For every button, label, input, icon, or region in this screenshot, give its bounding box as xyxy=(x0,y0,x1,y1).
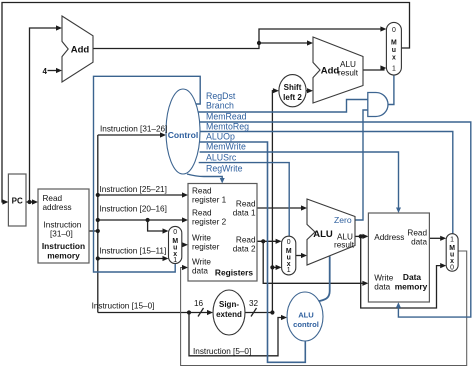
svg-text:control: control xyxy=(293,320,319,329)
svg-text:Read: Read xyxy=(236,236,256,245)
node ALU result junction xyxy=(359,234,363,238)
svg-text:Read: Read xyxy=(407,229,427,238)
svg-text:ALUSrc: ALUSrc xyxy=(206,153,237,163)
svg-text:data: data xyxy=(374,283,390,292)
wire Instruction [20-16] branch to write-register mux input 0 xyxy=(148,220,166,231)
node 15-0 junction xyxy=(187,310,191,314)
svg-text:register 2: register 2 xyxy=(192,218,227,227)
svg-text:memory: memory xyxy=(395,282,428,292)
svg-text:data: data xyxy=(411,238,427,247)
svg-text:Address: Address xyxy=(374,233,404,242)
wire Branch control to AND gate input 1 xyxy=(198,100,368,113)
svg-text:register 1: register 1 xyxy=(192,196,227,205)
svg-text:Sign-: Sign- xyxy=(219,300,239,309)
wire constant 4 into Add input 2 xyxy=(48,70,60,72)
svg-text:Read: Read xyxy=(236,200,256,209)
svg-text:Write: Write xyxy=(192,258,211,267)
svg-text:ALU: ALU xyxy=(313,229,333,240)
wire PC up to Add input 1 xyxy=(30,28,60,202)
adder Add (PC+4) xyxy=(62,16,93,82)
svg-text:4: 4 xyxy=(43,67,48,76)
svg-text:Add: Add xyxy=(71,45,90,56)
svg-text:Instruction [15–0]: Instruction [15–0] xyxy=(92,302,155,311)
svg-text:u: u xyxy=(392,47,396,54)
wire shift left 2 output to second Add input 2 xyxy=(306,90,311,92)
svg-text:ALUOp: ALUOp xyxy=(206,132,235,142)
svg-text:1: 1 xyxy=(392,66,396,73)
wire right mux output wrap-around bottom to Registers Write data xyxy=(181,251,467,366)
wire Zero flag to AND gate input 2 xyxy=(355,110,368,220)
svg-text:memory: memory xyxy=(47,251,80,261)
wire riser branch to ALUSrc mux input 1 xyxy=(272,266,279,268)
node riser junction xyxy=(270,265,274,269)
svg-text:address: address xyxy=(43,203,72,212)
svg-text:data 1: data 1 xyxy=(233,209,256,218)
svg-text:ALU: ALU xyxy=(298,311,314,320)
wire ALU result bypass under data memory to right mux input 0 xyxy=(361,236,444,308)
wire instruction bus vertical xyxy=(97,135,99,313)
wire data memory Read data to right mux input 1 xyxy=(429,237,443,239)
svg-text:left 2: left 2 xyxy=(283,93,302,102)
wire Read data 1 to ALU input 1 xyxy=(257,207,305,209)
node bus junction 20-16 xyxy=(96,218,100,222)
svg-text:RegDst: RegDst xyxy=(206,91,236,101)
svg-text:0: 0 xyxy=(287,239,291,246)
svg-text:RegWrite: RegWrite xyxy=(206,164,243,174)
svg-text:Instruction: Instruction xyxy=(44,221,82,230)
svg-text:32: 32 xyxy=(249,299,259,308)
wire write-register mux output to Write register xyxy=(182,244,186,246)
svg-text:16: 16 xyxy=(194,299,204,308)
AND gate (branch) xyxy=(368,93,388,117)
ALU main xyxy=(307,199,355,265)
mux top (PC source) xyxy=(386,22,401,75)
svg-text:Shift: Shift xyxy=(284,83,302,92)
svg-text:1: 1 xyxy=(287,267,291,274)
mux write register (RegDst) xyxy=(169,226,182,263)
wire Instruction [15-0] to sign-extend xyxy=(98,312,211,314)
wire Instruction [25-21] to Read register 1 xyxy=(98,194,186,196)
wire PC output to instruction memory read address xyxy=(26,201,36,203)
svg-text:PC: PC xyxy=(12,197,23,206)
data memory xyxy=(368,213,429,302)
node PC output junction xyxy=(27,200,31,204)
wire Read data 2 to ALUSrc mux input 0 xyxy=(257,240,279,242)
wire RegWrite control to Registers write enable xyxy=(187,174,222,181)
wire Add output (PC+4) to top mux input 0 xyxy=(93,29,384,49)
wire ALUOp control to ALU control xyxy=(200,142,306,362)
svg-text:Write: Write xyxy=(192,234,211,243)
wire Read data 2 branch to data memory write data xyxy=(263,241,366,283)
registers file xyxy=(188,184,257,282)
svg-text:1: 1 xyxy=(173,257,177,264)
node instruction memory output junction xyxy=(96,229,100,233)
svg-text:M: M xyxy=(391,40,397,47)
wire PC feedback from top mux output around top-left to PC input xyxy=(2,3,410,203)
svg-text:Instruction: Instruction xyxy=(42,241,85,251)
node sign-extend output corner xyxy=(270,310,274,314)
svg-text:register: register xyxy=(192,243,220,252)
wire ALU result to data memory Address xyxy=(355,235,366,237)
wire branch to second Add input 1 xyxy=(259,42,311,44)
svg-text:0: 0 xyxy=(392,27,396,34)
svg-text:MemWrite: MemWrite xyxy=(206,142,246,152)
svg-text:MemtoReg: MemtoReg xyxy=(206,122,249,132)
node 20-16 branch junction xyxy=(146,218,150,222)
svg-text:Instruction [31–26]: Instruction [31–26] xyxy=(100,125,167,134)
wire Instruction [20-16] to Read register 2 xyxy=(98,219,186,221)
svg-text:0: 0 xyxy=(173,229,177,236)
svg-text:0: 0 xyxy=(450,264,454,271)
register PC xyxy=(8,174,26,226)
svg-text:Read: Read xyxy=(43,194,63,203)
wire Instruction [5-0] to ALU control xyxy=(189,313,285,356)
wire MemRead control to data memory read port xyxy=(200,122,471,317)
svg-text:Branch: Branch xyxy=(206,101,234,111)
svg-text:MemRead: MemRead xyxy=(206,112,247,122)
svg-text:Read: Read xyxy=(192,209,212,218)
wire ALUSrc mux output to ALU input 2 xyxy=(296,255,305,257)
svg-text:x: x xyxy=(392,55,396,62)
node bus junction 15-11 xyxy=(96,256,100,260)
svg-text:Write: Write xyxy=(374,274,393,283)
svg-text:Instruction [5–0]: Instruction [5–0] xyxy=(193,347,251,356)
svg-text:1: 1 xyxy=(450,237,454,244)
wire MemtoReg control to right mux select xyxy=(200,132,453,234)
oval ALU control xyxy=(287,292,323,341)
svg-text:Zero: Zero xyxy=(334,215,352,225)
wire second Add output to top mux input 1 xyxy=(363,68,384,70)
svg-text:Control: Control xyxy=(168,130,199,140)
wire instruction memory output to instruction bus xyxy=(89,230,98,232)
node Read data 2 junction xyxy=(261,239,265,243)
wire Instruction [31-26] to Control xyxy=(98,134,164,136)
oval Sign-extend xyxy=(213,290,245,335)
node bus junction 25-21 xyxy=(96,193,100,197)
instruction memory xyxy=(38,189,89,263)
wire MemWrite control to data memory write port xyxy=(200,152,399,211)
svg-text:data 2: data 2 xyxy=(233,245,256,254)
wire sign-extend output riser to shift left 2 xyxy=(245,91,276,313)
oval Shift left 2 xyxy=(279,75,306,107)
wire RegDst control wrap-around left to write-register mux select xyxy=(94,76,201,272)
adder Add (branch target) xyxy=(313,37,363,103)
svg-text:Registers: Registers xyxy=(215,268,254,278)
svg-text:result: result xyxy=(334,241,355,250)
mux mem-to-reg (right) xyxy=(446,234,458,272)
svg-text:Instruction [25–21]: Instruction [25–21] xyxy=(100,185,167,194)
wire AND gate output to top mux select xyxy=(388,75,394,105)
svg-text:[31–0]: [31–0] xyxy=(50,230,73,239)
svg-text:extend: extend xyxy=(216,310,242,319)
wire Instruction [15-11] to write-register mux input 1 xyxy=(98,258,166,260)
svg-text:Data: Data xyxy=(403,272,421,282)
wire ALU control output to ALU control input xyxy=(317,256,330,301)
wire ALUSrc control to ALUSrc mux select xyxy=(199,163,290,236)
svg-text:result: result xyxy=(338,69,359,78)
svg-text:data: data xyxy=(192,267,208,276)
svg-text:Read: Read xyxy=(192,187,212,196)
oval Control xyxy=(166,89,200,174)
svg-text:Instruction [20–16]: Instruction [20–16] xyxy=(100,205,167,214)
node PC+4 junction xyxy=(257,41,261,45)
mux ALU source (ALUSrc) xyxy=(282,236,296,275)
svg-text:Instruction [15–11]: Instruction [15–11] xyxy=(100,247,167,256)
svg-text:Add: Add xyxy=(321,66,340,77)
